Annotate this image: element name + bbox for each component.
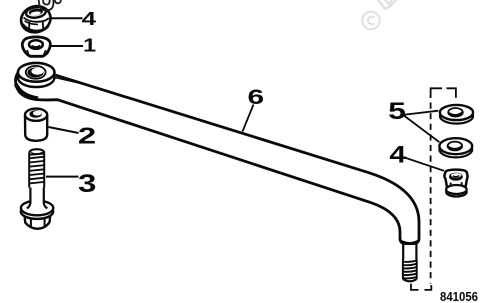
label 3 xyxy=(78,170,96,198)
label 4 (top left) leader xyxy=(51,17,83,19)
rod chamfer line xyxy=(55,78,84,85)
flange nut 4 (right) hex body xyxy=(444,170,467,197)
svg-text:3: 3 xyxy=(78,170,96,198)
stud tip xyxy=(403,279,417,281)
label 4 (top left) xyxy=(82,9,96,29)
flange lock nut 4 (top left) xyxy=(18,2,54,36)
svg-text:2: 2 xyxy=(78,123,96,149)
spacer 2 xyxy=(25,109,47,141)
label 6 xyxy=(248,85,265,109)
svg-text:4: 4 xyxy=(82,9,96,29)
bolt 3 hex head xyxy=(24,212,50,229)
label 4 (right) leader xyxy=(405,158,445,171)
bolt 3 threads xyxy=(29,149,45,187)
rod bottom face line xyxy=(401,241,418,243)
hex nut 1 xyxy=(22,37,50,56)
label 6 leader xyxy=(243,105,254,132)
rod eye hole rim xyxy=(26,66,46,79)
svg-text:5: 5 xyxy=(388,98,406,125)
svg-text:4: 4 xyxy=(389,142,407,169)
svg-text:6: 6 xyxy=(248,85,265,109)
label 2 xyxy=(78,123,96,149)
watermark (top right, light) xyxy=(362,0,410,29)
bolt 3 shank xyxy=(27,188,48,209)
stud shank xyxy=(403,244,416,260)
watermark (top left, dark outline) xyxy=(39,0,62,10)
svg-text:1: 1 xyxy=(83,35,96,55)
rod eye bottom shadow xyxy=(16,84,38,99)
rod eye boss top xyxy=(18,63,55,82)
rod eye hole xyxy=(27,68,43,78)
label 4 (right) xyxy=(389,142,407,169)
stud threads xyxy=(403,260,418,280)
bolt 3 flange xyxy=(21,201,54,219)
label 3 leader xyxy=(46,176,79,178)
washer 5a (top) xyxy=(440,105,473,124)
link rod 6 (arm, elbow, eye body) xyxy=(16,69,419,244)
label 2 leader xyxy=(49,127,79,133)
dashed bracket xyxy=(411,88,456,290)
label 5 xyxy=(388,98,406,125)
washer 5b (bottom) xyxy=(439,138,472,157)
part number 841056 xyxy=(440,289,478,303)
label 1 xyxy=(83,35,96,55)
label 5 leaders xyxy=(403,111,439,142)
label 1 leader xyxy=(51,45,84,47)
rod eye boss band xyxy=(18,69,54,88)
svg-text:841056: 841056 xyxy=(440,289,478,303)
